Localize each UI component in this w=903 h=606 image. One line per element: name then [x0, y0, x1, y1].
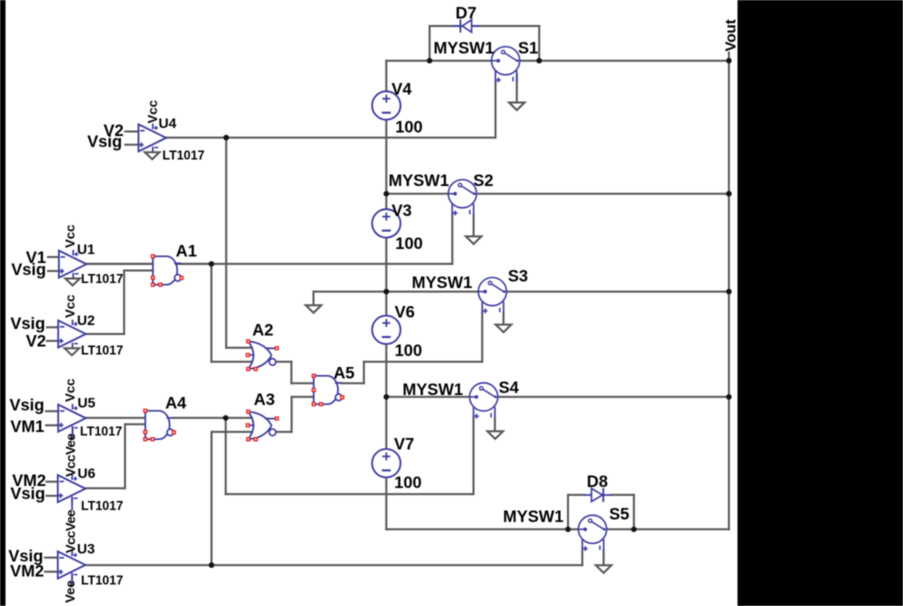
wire A4 output run to S4 control [226, 493, 474, 495]
svg-text:D7: D7 [456, 4, 477, 22]
svg-text:V7: V7 [394, 436, 414, 454]
junction U3 output node [209, 562, 215, 568]
wire U6 output [86, 487, 125, 489]
ground flag U4 [145, 152, 160, 159]
wire D7 right drop [538, 26, 540, 61]
junction V6/V7/S4 row [384, 394, 390, 400]
voltage source V3 [372, 209, 400, 237]
switch S2 (MYSW1 voltage-controlled switch) [448, 180, 476, 208]
svg-text:D8: D8 [587, 473, 608, 491]
svg-text:A5: A5 [334, 364, 355, 382]
wire A3 output [276, 431, 292, 433]
wire V7 to S5 row [386, 528, 568, 530]
wire U6 minus input stub [47, 481, 58, 483]
diode D7 [459, 19, 461, 32]
svg-text:LT1017: LT1017 [81, 574, 123, 588]
wire S3 minus-control to ground [503, 313, 505, 325]
svg-text:S4: S4 [499, 379, 520, 397]
wire A5 output riser [363, 362, 365, 384]
wire U4 minus input stub [125, 131, 138, 133]
wire S2 plus-control drop [451, 215, 453, 264]
wire S5 plus-control drop [581, 551, 583, 565]
op-amp U1 (LT1017) [59, 251, 87, 278]
wire U4 output to S1 control [166, 137, 495, 139]
wire S5 row right to Vout rail [607, 528, 729, 530]
svg-text:S1: S1 [518, 39, 538, 57]
svg-text:S3: S3 [508, 268, 528, 286]
op-amp U5 (LT1017) [58, 405, 86, 432]
svg-text:V3: V3 [392, 202, 412, 220]
svg-text:Vcc: Vcc [63, 225, 78, 248]
ground under S2 [466, 236, 482, 244]
wire A4 output to A3 input 1 [174, 417, 252, 419]
wire U2 plus input stub [47, 340, 58, 342]
svg-text:LT1017: LT1017 [162, 148, 204, 162]
wire A5 input 2 [292, 396, 314, 398]
wire U4 plus input stub [125, 144, 138, 146]
switch S1 (MYSW1 voltage-controlled switch) [492, 47, 520, 75]
svg-text:V2: V2 [26, 332, 46, 350]
svg-text:V4: V4 [392, 80, 413, 98]
wire D8 right drop [633, 495, 635, 529]
ground under S1 [509, 103, 525, 111]
wire S4 row right [498, 396, 729, 398]
wire A2 output drop [290, 362, 292, 384]
NAND gate A1 [153, 256, 177, 284]
junction D8 right / S5 row [631, 527, 637, 533]
svg-text:100: 100 [395, 119, 423, 137]
switch S4 (MYSW1 voltage-controlled switch) [470, 383, 498, 411]
junction Vout at S2 row [726, 191, 732, 197]
svg-text:Vsig: Vsig [87, 133, 122, 151]
wire S4 row left [386, 396, 470, 398]
svg-text:U3: U3 [77, 541, 95, 557]
wire S2 row right [477, 193, 729, 195]
wire V4 top [385, 61, 387, 92]
ground under S3 [496, 325, 512, 333]
svg-text:Vee: Vee [63, 580, 78, 603]
wire A4 input 2 [125, 423, 145, 425]
op-amp U2 (LT1017) [58, 320, 86, 347]
svg-text:A3: A3 [254, 391, 275, 409]
svg-text:LT1017: LT1017 [81, 343, 123, 357]
svg-text:LT1017: LT1017 [81, 272, 123, 286]
junction V4/V3/S2 row [384, 191, 390, 197]
ground flag U1 [65, 279, 80, 286]
wire U2 output [87, 333, 124, 335]
ground under S5 [596, 565, 612, 573]
wire U2 minus input stub [47, 326, 58, 328]
wire A5 output run to S3 control [364, 361, 482, 363]
ground under S4 [487, 431, 503, 439]
svg-text:A1: A1 [176, 243, 197, 261]
wire S2 row left [386, 193, 448, 195]
wire S3 plus-control drop [481, 313, 483, 362]
wire U6 Vee pin [71, 497, 73, 509]
ground flag U2 [65, 348, 80, 355]
junction Vout at S3 row [726, 289, 732, 295]
wire U5 Vee pin [72, 427, 74, 439]
op-amp U6 (LT1017) [58, 475, 86, 502]
svg-text:A4: A4 [165, 394, 187, 412]
wire V7 bottom drop [385, 477, 387, 529]
wire Vout vertical rail [728, 53, 730, 530]
svg-text:MYSW1: MYSW1 [412, 274, 473, 292]
svg-text:VM1: VM1 [10, 418, 44, 436]
svg-text:U1: U1 [77, 241, 95, 257]
wire D7 left drop [429, 26, 431, 61]
wire A2 output [276, 361, 292, 363]
wire D8 left drop [567, 495, 569, 529]
wire S4 plus-control drop [473, 418, 475, 494]
wire D8 right run [611, 494, 634, 496]
junction D7 right / S1 row [536, 58, 542, 64]
switch S5 (MYSW1 voltage-controlled switch) [578, 515, 606, 543]
svg-text:A2: A2 [252, 321, 273, 339]
wire A2 input 1 [226, 347, 252, 349]
svg-text:VccVee: VccVee [63, 434, 78, 477]
svg-text:S5: S5 [609, 506, 629, 524]
junction Vout at S1 row [726, 58, 732, 64]
diode D8 [602, 488, 604, 502]
switch S3 (MYSW1 voltage-controlled switch) [478, 278, 506, 306]
wire U6 plus input stub [47, 495, 58, 497]
svg-text:U2: U2 [77, 312, 95, 328]
NAND gate A5 [314, 376, 338, 404]
junction U4 output node [223, 135, 229, 141]
wire V6 top stub [385, 292, 387, 316]
svg-text:VccVee: VccVee [63, 510, 78, 553]
svg-text:MYSW1: MYSW1 [403, 381, 464, 399]
junction D8 left / S5 row [565, 527, 571, 533]
svg-text:V6: V6 [395, 303, 415, 321]
svg-text:Vsig: Vsig [10, 315, 45, 333]
NOR/OR gate A2 [248, 341, 271, 355]
svg-text:Vsig: Vsig [9, 397, 44, 415]
wire U5 minus input stub [46, 410, 58, 412]
wire S3 left ground drop [313, 292, 315, 306]
svg-text:MYSW1: MYSW1 [503, 508, 564, 526]
svg-text:100: 100 [394, 474, 422, 492]
wire S3 row right [507, 291, 729, 293]
left black border bar [0, 0, 6, 606]
svg-text:Vsig: Vsig [11, 261, 46, 279]
wire V3 top stub [385, 194, 387, 210]
NOR/OR gate A3 [248, 412, 271, 426]
wire U3 output row to S5 control [86, 564, 582, 566]
op-amp U3 (LT1017) [58, 551, 86, 578]
wire U1 minus input stub [48, 256, 59, 258]
wire V7 top stub [385, 397, 387, 449]
wire U3 Vee pin [71, 574, 73, 586]
svg-text:100: 100 [395, 342, 423, 360]
wire S1 minus-control to ground [516, 75, 518, 103]
wire A3 output riser [291, 397, 293, 432]
junction V3/V6/S3 row [384, 289, 390, 295]
wire S3 row left [314, 291, 479, 293]
wire U4 output drop to A2 [225, 138, 227, 348]
wire S2 minus-control to ground [473, 215, 475, 236]
wire U3 minus input stub [45, 557, 58, 559]
wire V6 bottom to S4 node [385, 344, 387, 397]
op-amp U4 (LT1017) [139, 124, 167, 151]
wire A1 input 2 [124, 270, 153, 272]
wire S1 row to Vout rail [386, 60, 729, 62]
ground at S3 row left [306, 305, 322, 313]
wire A1 output row to S2 control [86, 263, 452, 265]
wire U1 plus input stub [48, 270, 59, 272]
junction Vout at S4 row [726, 394, 732, 400]
svg-text:VM2: VM2 [10, 563, 44, 581]
wire U5 output to A4 [86, 417, 145, 419]
svg-text:S2: S2 [473, 172, 493, 190]
wire A4 output riser [225, 418, 227, 494]
wire U5 plus input stub [46, 424, 58, 426]
wire S1 plus-control drop [495, 82, 497, 137]
svg-text:100: 100 [395, 235, 423, 253]
wire S4 minus-control to ground [494, 418, 496, 431]
wire A2 input 2 [211, 361, 251, 363]
svg-text:Vsig: Vsig [10, 485, 45, 503]
junction A4 output node [223, 415, 229, 421]
svg-text:U4: U4 [159, 115, 177, 131]
svg-text:LT1017: LT1017 [80, 425, 122, 439]
junction A1 output node [209, 261, 215, 267]
wire A5 output stub run [341, 382, 364, 384]
junction D7 left / S1 row [427, 58, 433, 64]
svg-text:Vcc: Vcc [63, 379, 78, 402]
svg-text:Vcc: Vcc [63, 295, 78, 318]
svg-text:MYSW1: MYSW1 [434, 40, 495, 58]
wire V3 bottom to S3 node [385, 238, 387, 292]
NAND gate A4 [145, 411, 169, 439]
wire U3 output riser to A3 [211, 432, 213, 565]
wire A3 input 2 [212, 431, 252, 433]
svg-text:Vout: Vout [722, 19, 739, 51]
wire A5 input 1 [291, 382, 313, 384]
svg-text:U5: U5 [78, 394, 96, 410]
svg-text:U6: U6 [78, 465, 96, 481]
svg-text:LT1017: LT1017 [81, 499, 123, 513]
svg-text:MYSW1: MYSW1 [389, 172, 450, 190]
wire S5 minus-control to ground [603, 551, 605, 566]
wire S5 left stub [568, 528, 578, 530]
voltage source V6 [372, 316, 400, 344]
wire U6 output riser [124, 424, 126, 488]
wire D8 left run [568, 494, 583, 496]
wire A1 output stub run [181, 263, 211, 265]
wire A1 output drop to A2 [210, 264, 212, 362]
wire U1 output to A1 [86, 263, 152, 265]
voltage source V7 [372, 449, 400, 477]
wire U2 output riser [123, 271, 125, 335]
right black border bar [738, 0, 903, 606]
wire V4 bottom to V3 node [385, 119, 387, 194]
wire U3 plus input stub [45, 571, 58, 573]
voltage source V4 [372, 91, 400, 119]
wire D7 top loop [430, 25, 540, 27]
